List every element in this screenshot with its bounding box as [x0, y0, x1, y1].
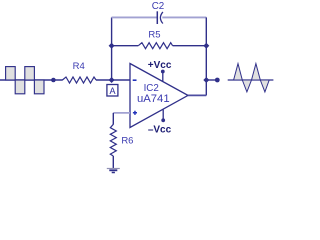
triangle wave peak 2 (down) — [242, 80, 251, 92]
wire: op-amp output — [188, 94, 206, 96]
-Vcc stub wire — [162, 110, 164, 121]
wire: top loop left segment to C2 — [112, 16, 158, 18]
svg-text:R4: R4 — [73, 61, 85, 72]
wire: + input vertical to R6 — [112, 113, 114, 125]
wire: top loop right segment from C2 — [162, 16, 206, 18]
wire: R5 left lead — [112, 45, 139, 47]
triangle wave peak 3 (up) — [252, 64, 261, 80]
+Vcc stub wire — [162, 72, 164, 82]
capacitor C2 straight plate — [156, 11, 158, 24]
svg-text:C2: C2 — [152, 1, 165, 12]
output terminal dot — [215, 78, 220, 83]
svg-text:A: A — [109, 86, 115, 96]
resistor R4 — [62, 77, 96, 83]
svg-text:–Vcc: –Vcc — [148, 125, 172, 136]
wire: R6 to ground — [112, 156, 114, 168]
square wave source pulse 4 (down) — [34, 80, 44, 94]
triangle wave peak 4 (down) — [260, 80, 269, 92]
junction dot R5 left — [109, 43, 115, 49]
square wave source pulse 2 (down) — [15, 80, 25, 94]
wire: output stub — [206, 79, 217, 81]
resistor R5 — [138, 43, 172, 49]
wire: input baseline left segment — [0, 79, 63, 81]
ground symbol — [107, 168, 120, 170]
input terminal dot — [51, 78, 56, 83]
op-amp minus sign — [133, 79, 137, 81]
square-wave input source symbol pulse 1 (up) — [6, 67, 16, 80]
square wave source pulse 3 (up) — [25, 67, 35, 80]
svg-text:R5: R5 — [148, 30, 160, 41]
wire: right feedback vertical — [205, 17, 207, 95]
wire: R5 right lead — [173, 45, 207, 47]
junction dot R5 right — [203, 43, 209, 49]
wire: + input horizontal — [113, 112, 130, 114]
-Vcc terminal dot — [161, 118, 165, 122]
op-amp plus sign — [133, 111, 137, 115]
triangle wave output symbol baseline — [228, 79, 274, 81]
svg-text:R6: R6 — [121, 136, 133, 147]
triangle wave peak 1 (up) — [234, 64, 243, 80]
wire: R4 to op-amp minus input — [96, 79, 130, 81]
svg-text:uA741: uA741 — [137, 93, 170, 105]
node A junction dot — [109, 77, 115, 83]
capacitor C2 curved plate — [160, 12, 163, 24]
op-amp IC2 uA741 triangle body — [130, 64, 188, 128]
+Vcc terminal dot — [161, 70, 165, 74]
wire: node A feedback vertical — [111, 17, 113, 80]
svg-text:+Vcc: +Vcc — [148, 60, 172, 71]
resistor R6 — [110, 124, 116, 156]
node A label box — [107, 85, 118, 97]
output junction dot — [203, 77, 209, 83]
